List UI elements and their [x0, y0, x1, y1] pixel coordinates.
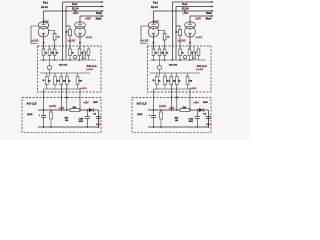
wire rail 3 (plate lead V1) B	[154, 10, 212, 12]
module box AO-2,4 dashed border A	[38, 46, 102, 92]
svg-text:250V: 250V	[93, 102, 98, 104]
arrowhead rail 3 B	[211, 10, 214, 12]
main supply wire A	[38, 109, 98, 111]
svg-text:R40: R40	[65, 116, 68, 119]
wire box1 to box2 col c B	[176, 85, 178, 98]
indicator circle 2 leads B	[184, 59, 186, 60]
svg-text:+45V: +45V	[193, 101, 199, 104]
svg-text:(+24V): (+24V)	[159, 105, 166, 108]
wire rail 1 (anode bus Ra1) B	[173, 1, 212, 3]
main supply wire B	[148, 109, 208, 111]
resistor R41 leads B	[160, 110, 162, 127]
wire col a into box2 B	[153, 98, 155, 116]
node ground bus x87.3 B	[197, 126, 199, 128]
wire rail 3 (plate lead V1) A	[44, 10, 102, 12]
resistor R40 body (horizontal) B	[180, 109, 190, 112]
capacitor C1 lead down A	[43, 118, 45, 127]
ground bus wire B	[148, 126, 208, 128]
lamp circle A	[47, 65, 51, 69]
svg-text:5k6: 5k6	[79, 81, 82, 83]
trimmer resistor body A	[83, 52, 86, 59]
resistor row1-1 A	[42, 49, 45, 56]
svg-text:+42V: +42V	[59, 107, 65, 110]
resistor R2 (1k) body B	[179, 30, 182, 36]
svg-text:АО-2,4: АО-2,4	[197, 64, 207, 68]
resistor row1-7 leads A	[88, 47, 90, 60]
resistor row2-1 B	[155, 77, 158, 85]
svg-text:1k: 1k	[159, 81, 161, 83]
svg-text:0,5: 0,5	[203, 114, 206, 116]
node main wire x43.5 B	[153, 109, 155, 111]
trimmer arrow B	[192, 46, 197, 60]
svg-text:Rа2: Rа2	[182, 2, 188, 6]
right channel schematic panel	[132, 1, 214, 133]
svg-text:(24V): (24V)	[137, 113, 142, 116]
resistor row2-5 leads B	[187, 73, 189, 89]
node ground bus x43.5 B	[153, 126, 155, 128]
diode D1 A	[89, 108, 93, 112]
svg-text:(-0,5V): (-0,5V)	[86, 37, 93, 39]
trimmer resistor body B	[193, 52, 196, 59]
svg-text:R40: R40	[175, 116, 178, 119]
arrowhead rail 2 A	[101, 6, 104, 8]
node main wire x80 B	[189, 109, 191, 111]
tube V2 anode bar A	[78, 22, 82, 24]
resistor row1-7 A	[87, 49, 90, 56]
svg-text:+42V: +42V	[169, 107, 175, 110]
tube V1 anode lead wire B	[153, 11, 155, 22]
svg-text:1k: 1k	[179, 81, 181, 83]
resistor row1-5 A	[78, 49, 81, 56]
arrowhead rail 4 B	[211, 15, 214, 17]
module box AO-2,5 dashed border B	[132, 98, 211, 133]
resistor row2-5 leads A	[77, 73, 79, 89]
wire vertical from rail 2 to grid V2 A	[66, 7, 70, 61]
resistor row2-4 B	[175, 77, 178, 85]
svg-text:2k: 2k	[45, 53, 47, 55]
svg-text:(-0,5V): (-0,5V)	[196, 37, 203, 39]
indicator circle 2 B	[183, 55, 186, 58]
svg-text:АО-2,5: АО-2,5	[27, 102, 37, 106]
svg-text:400V: 400V	[96, 123, 101, 126]
lamp leads A	[49, 60, 51, 77]
node bus1 x62.5 A	[62, 59, 64, 61]
svg-text:EL34: EL34	[182, 7, 189, 11]
tube V1 envelope upper B	[148, 22, 159, 29]
resistor R1 (1k) body B	[163, 34, 166, 41]
node main wire x61.3 A	[61, 109, 63, 111]
tube V1 grid lead wire A	[31, 26, 39, 44]
node cathode V1 B	[153, 42, 155, 44]
resistor row1-3 A	[53, 49, 56, 56]
resistor row1-2 leads A	[49, 46, 51, 60]
resistor row1-1 B	[152, 49, 155, 56]
node main wire x51 B	[160, 109, 162, 111]
resistor row2-1 A	[45, 77, 48, 85]
resistor row1-3 leads A	[54, 46, 56, 60]
tube V1 grid lead wire B	[141, 26, 149, 44]
wire col b into box2 A	[60, 98, 62, 111]
svg-text:3k: 3k	[72, 53, 74, 55]
tube V2 envelope lower B	[185, 27, 196, 38]
node C2 top A	[87, 109, 89, 111]
svg-text:(+1,5V): (+1,5V)	[31, 41, 39, 43]
wire box1 to box2 col b B	[170, 85, 172, 98]
wire box1 to box2 col b A	[60, 85, 62, 98]
resistor row1-4 B	[179, 49, 182, 56]
svg-text:2k: 2k	[43, 80, 45, 82]
capacitor C3 lead A	[97, 119, 99, 127]
resistor row2-1 leads A	[46, 73, 48, 89]
resistor R1 leads A	[48, 31, 55, 50]
tube V1 grid dashes A	[40, 26, 48, 28]
wire col c into box2 B	[176, 98, 178, 111]
wire vertical from rail 1 B	[172, 2, 174, 60]
tube V1 anode lead wire A	[43, 11, 45, 22]
svg-text:(+4,5V): (+4,5V)	[190, 87, 197, 90]
resistor row1-1 leads A	[43, 46, 45, 60]
node box2 top c B	[176, 97, 178, 99]
node ground bus x51 A	[50, 126, 52, 128]
module box AO-2,5 dashed border A	[22, 98, 101, 133]
svg-text:+65V: +65V	[183, 12, 189, 15]
resistor row1-7 B	[197, 49, 200, 56]
tube V2 envelope upper A	[75, 22, 86, 29]
wire diode down A	[97, 110, 99, 127]
node main wire x66.8 B	[176, 109, 178, 111]
node bus1 x79.5 B	[189, 59, 191, 61]
resistor row2-4 A	[65, 77, 68, 85]
svg-text:30мА: 30мА	[206, 17, 212, 20]
diode D1 bar A	[92, 108, 94, 112]
resistor row2-5 A	[76, 77, 79, 85]
svg-text:+65V: +65V	[195, 17, 201, 20]
node bus1 x79.5 A	[79, 59, 81, 61]
resistor row1-1 leads B	[153, 46, 155, 60]
svg-text:30мА: 30мА	[96, 12, 102, 15]
svg-text:30мА: 30мА	[206, 12, 212, 15]
arrowhead rail 1 A	[101, 1, 104, 3]
svg-text:АО-2,4: АО-2,4	[87, 64, 97, 68]
wire box1 to box2 col d B	[189, 89, 191, 98]
svg-text:EL34: EL34	[72, 7, 79, 11]
svg-text:Rа2: Rа2	[72, 2, 78, 6]
resistor R41 body A	[50, 112, 53, 119]
svg-text:400V: 400V	[206, 123, 211, 126]
resistor row1-3 B	[163, 49, 166, 56]
tube V1 anode bar A	[42, 22, 46, 24]
resistor row1-4 leads B	[179, 46, 181, 60]
tube V2 anode lead wire A	[79, 16, 81, 22]
diode D1 B	[199, 108, 203, 112]
tube V2 envelope lower A	[75, 27, 86, 38]
svg-text:(+1,5V): (+1,5V)	[141, 41, 149, 43]
wire rail 4 (plate lead V2) A	[80, 15, 101, 17]
resistor row1-7 leads B	[198, 47, 200, 60]
resistor R1 leads B	[158, 31, 165, 50]
bus wire 2 box1 B	[150, 72, 200, 74]
node junction on rail 3 B	[184, 10, 186, 12]
bus wire mid box1 B	[150, 59, 206, 61]
resistor row1-4 A	[69, 49, 72, 56]
arrowhead rail 4 A	[101, 15, 104, 17]
resistor R2 leads A	[69, 26, 71, 49]
node C2 top B	[197, 109, 199, 111]
node cathode V2 B	[189, 42, 191, 44]
tube V1 cathode lead wire A	[43, 37, 45, 49]
wire col d into box2 B	[189, 98, 191, 111]
resistor row2-2 A	[54, 77, 57, 85]
svg-text:3k: 3k	[182, 53, 184, 55]
indicator circle 2 A	[73, 55, 76, 58]
svg-text:EL34: EL34	[41, 5, 48, 9]
bus wire mid box1 A	[40, 59, 96, 61]
node bus1 x70 A	[69, 59, 71, 61]
svg-text:(+1,5V): (+1,5V)	[178, 41, 186, 43]
capacitor C2 leads B	[196, 110, 198, 127]
capacitor C3 plates B	[206, 117, 211, 119]
left channel schematic panel	[22, 1, 104, 133]
svg-text:400V: 400V	[189, 120, 194, 123]
wire col a into box2 A	[43, 98, 45, 116]
resistor R2 (1k) body A	[69, 30, 72, 36]
bus wire 2 box1 A	[40, 72, 90, 74]
resistor row2-2 leads A	[54, 73, 56, 89]
wire diode down B	[207, 110, 209, 127]
resistor row1-4 leads A	[69, 46, 71, 60]
wire box1 to box2 col c A	[66, 85, 68, 98]
wire col c into box2 A	[66, 98, 68, 111]
node main wire x66.8 A	[66, 109, 68, 111]
bus wire 3 box1 A	[44, 88, 81, 90]
svg-text:(+24V): (+24V)	[49, 105, 56, 108]
tube V1 cathode lead wire B	[153, 37, 155, 49]
resistor row2-5 B	[186, 77, 189, 85]
node main wire x61.3 B	[171, 109, 173, 111]
svg-text:0,5: 0,5	[93, 114, 96, 116]
node ground bus x98.4 A	[98, 126, 100, 128]
tube V1 cathode A	[42, 29, 45, 37]
wire rail 1 (anode bus Ra1) A	[63, 1, 102, 3]
svg-text:+45V: +45V	[83, 101, 89, 104]
resistor row2-2 leads B	[164, 73, 166, 89]
node bus1 x70 B	[179, 59, 181, 61]
node bus1 x54.6 B	[164, 59, 166, 61]
node main wire x80 A	[79, 109, 81, 111]
svg-text:2k: 2k	[155, 53, 157, 55]
resistor row1-2 leads B	[159, 46, 161, 60]
resistor R41 leads A	[50, 110, 52, 127]
capacitor C2 plates A	[85, 117, 90, 119]
svg-text:15k: 15k	[161, 53, 164, 55]
tube V1 cathode B	[152, 29, 155, 37]
capacitor C1 plates A	[41, 116, 46, 118]
resistor row1-5 B	[188, 49, 191, 56]
arrowhead rail 1 B	[211, 1, 214, 3]
node bus1 x43.5 B	[153, 59, 155, 61]
tube V2 cathode A	[78, 29, 81, 37]
svg-text:3k3 2×18k: 3k3 2×18k	[59, 64, 67, 67]
capacitor C3 lead B	[207, 119, 209, 127]
ground bus wire A	[38, 126, 98, 128]
capacitor C2 leads A	[86, 110, 88, 127]
svg-text:15k: 15k	[51, 53, 54, 55]
wire vertical from rail 2 to grid V2 B	[176, 7, 180, 61]
svg-text:1k: 1k	[69, 81, 71, 83]
node main wire x51 A	[50, 109, 52, 111]
svg-text:5k6: 5k6	[189, 81, 192, 83]
diode D1 bar B	[202, 108, 204, 112]
tube V1 grid dashes B	[150, 26, 158, 28]
tube V1 envelope lower A	[38, 27, 49, 38]
svg-text:(+1,5V): (+1,5V)	[68, 41, 76, 43]
svg-text:3k3 2×18k: 3k3 2×18k	[169, 64, 177, 67]
paper background	[0, 0, 250, 140]
svg-text:30мА: 30мА	[96, 17, 102, 20]
resistor row2-3 A	[60, 77, 63, 85]
node box2 top b B	[170, 97, 172, 99]
svg-text:3k: 3k	[166, 53, 168, 55]
svg-text:(+4,5V): (+4,5V)	[80, 87, 87, 90]
wire col d into box2 A	[79, 98, 81, 111]
resistor R40 body (horizontal) A	[70, 109, 80, 112]
resistor row2-1 leads B	[156, 73, 158, 89]
resistor R2 leads B	[179, 26, 181, 49]
svg-text:4k7: 4k7	[57, 80, 60, 83]
arrowhead rail 2 B	[211, 6, 214, 8]
wire rail 4 (plate lead V2) B	[190, 15, 211, 17]
trimmer arrow A	[82, 46, 87, 60]
module box AO-2,4 dashed border B	[148, 46, 212, 92]
resistor row2-3 B	[170, 77, 173, 85]
node main wire x43.5 A	[43, 109, 45, 111]
resistor row2-4 leads A	[66, 73, 68, 89]
node box2 top b A	[60, 97, 62, 99]
resistor row1-3 leads B	[164, 46, 166, 60]
resistor R41 body B	[160, 112, 163, 119]
tube V2 cathode B	[188, 29, 191, 37]
wire col b into box2 B	[170, 98, 172, 111]
resistor row1-2 B	[158, 49, 161, 56]
resistor row2-3 leads B	[170, 73, 172, 89]
svg-text:250V: 250V	[203, 102, 208, 104]
bus wire 3 box1 B	[154, 88, 191, 90]
tube V2 cathode lead wire B	[189, 37, 191, 49]
svg-text:(24V): (24V)	[27, 113, 32, 116]
tube V1 envelope lower B	[148, 27, 159, 38]
wire box1 to box2 col a A	[43, 89, 45, 98]
lamp leads B	[159, 60, 161, 77]
node ground bus x87.3 A	[87, 126, 89, 128]
tube V2 grid dashes A	[76, 26, 84, 28]
svg-text:+65V: +65V	[85, 17, 91, 20]
wire vertical from rail 1 A	[62, 2, 64, 60]
svg-text:(+4,5V): (+4,5V)	[86, 68, 93, 71]
svg-text:+65V: +65V	[73, 12, 79, 15]
node ground bus x98.4 B	[208, 126, 210, 128]
resistor row2-4 leads B	[176, 73, 178, 89]
resistor row2-3 leads A	[60, 73, 62, 89]
resistor row1-5 leads A	[79, 46, 81, 60]
node bus1 x54.6 A	[54, 59, 56, 61]
svg-text:EL34: EL34	[151, 5, 158, 9]
tube V2 grid dashes B	[186, 26, 194, 28]
tube V2 envelope upper B	[185, 22, 196, 29]
svg-text:1k: 1k	[49, 81, 51, 83]
node ground bus x51 B	[160, 126, 162, 128]
wire box1 to box2 col d A	[79, 89, 81, 98]
tube V2 anode lead wire B	[189, 16, 191, 22]
node ground bus x43.5 A	[43, 126, 45, 128]
svg-text:АО-2,5: АО-2,5	[137, 102, 147, 106]
indicator circle 2 leads A	[74, 59, 76, 60]
svg-text:2k: 2k	[153, 80, 155, 82]
wire box1 to box2 col a B	[153, 89, 155, 98]
node bus1 x62.5 B	[172, 59, 174, 61]
node box2 top c A	[66, 97, 68, 99]
capacitor C3 plates A	[96, 117, 101, 119]
svg-text:4k7: 4k7	[167, 80, 170, 83]
resistor R1 (1k) body A	[53, 34, 56, 41]
tube V2 anode bar B	[188, 22, 192, 24]
resistor row1-2 A	[48, 49, 51, 56]
wire rail 2 (anode bus Ra2) B	[176, 6, 211, 8]
capacitor C1 lead down B	[153, 118, 155, 127]
tube V1 envelope upper A	[38, 22, 49, 29]
wire rail 2 (anode bus Ra2) A	[66, 6, 101, 8]
tube V1 anode bar B	[152, 22, 156, 24]
svg-text:3k: 3k	[56, 53, 58, 55]
node cathode V2 A	[79, 42, 81, 44]
lamp circle B	[157, 65, 161, 69]
node junction on rail 3 A	[74, 10, 76, 12]
tube V2 cathode lead wire A	[79, 37, 81, 49]
node cathode V1 A	[43, 42, 45, 44]
arrowhead rail 3 A	[101, 10, 104, 12]
capacitor C1 plates B	[151, 116, 156, 118]
resistor row1-5 leads B	[189, 46, 191, 60]
svg-text:400V: 400V	[79, 120, 84, 123]
node bus1 x43.5 A	[43, 59, 45, 61]
capacitor C2 plates B	[195, 117, 200, 119]
resistor row2-2 B	[164, 77, 167, 85]
svg-text:(+4,5V): (+4,5V)	[196, 68, 203, 71]
